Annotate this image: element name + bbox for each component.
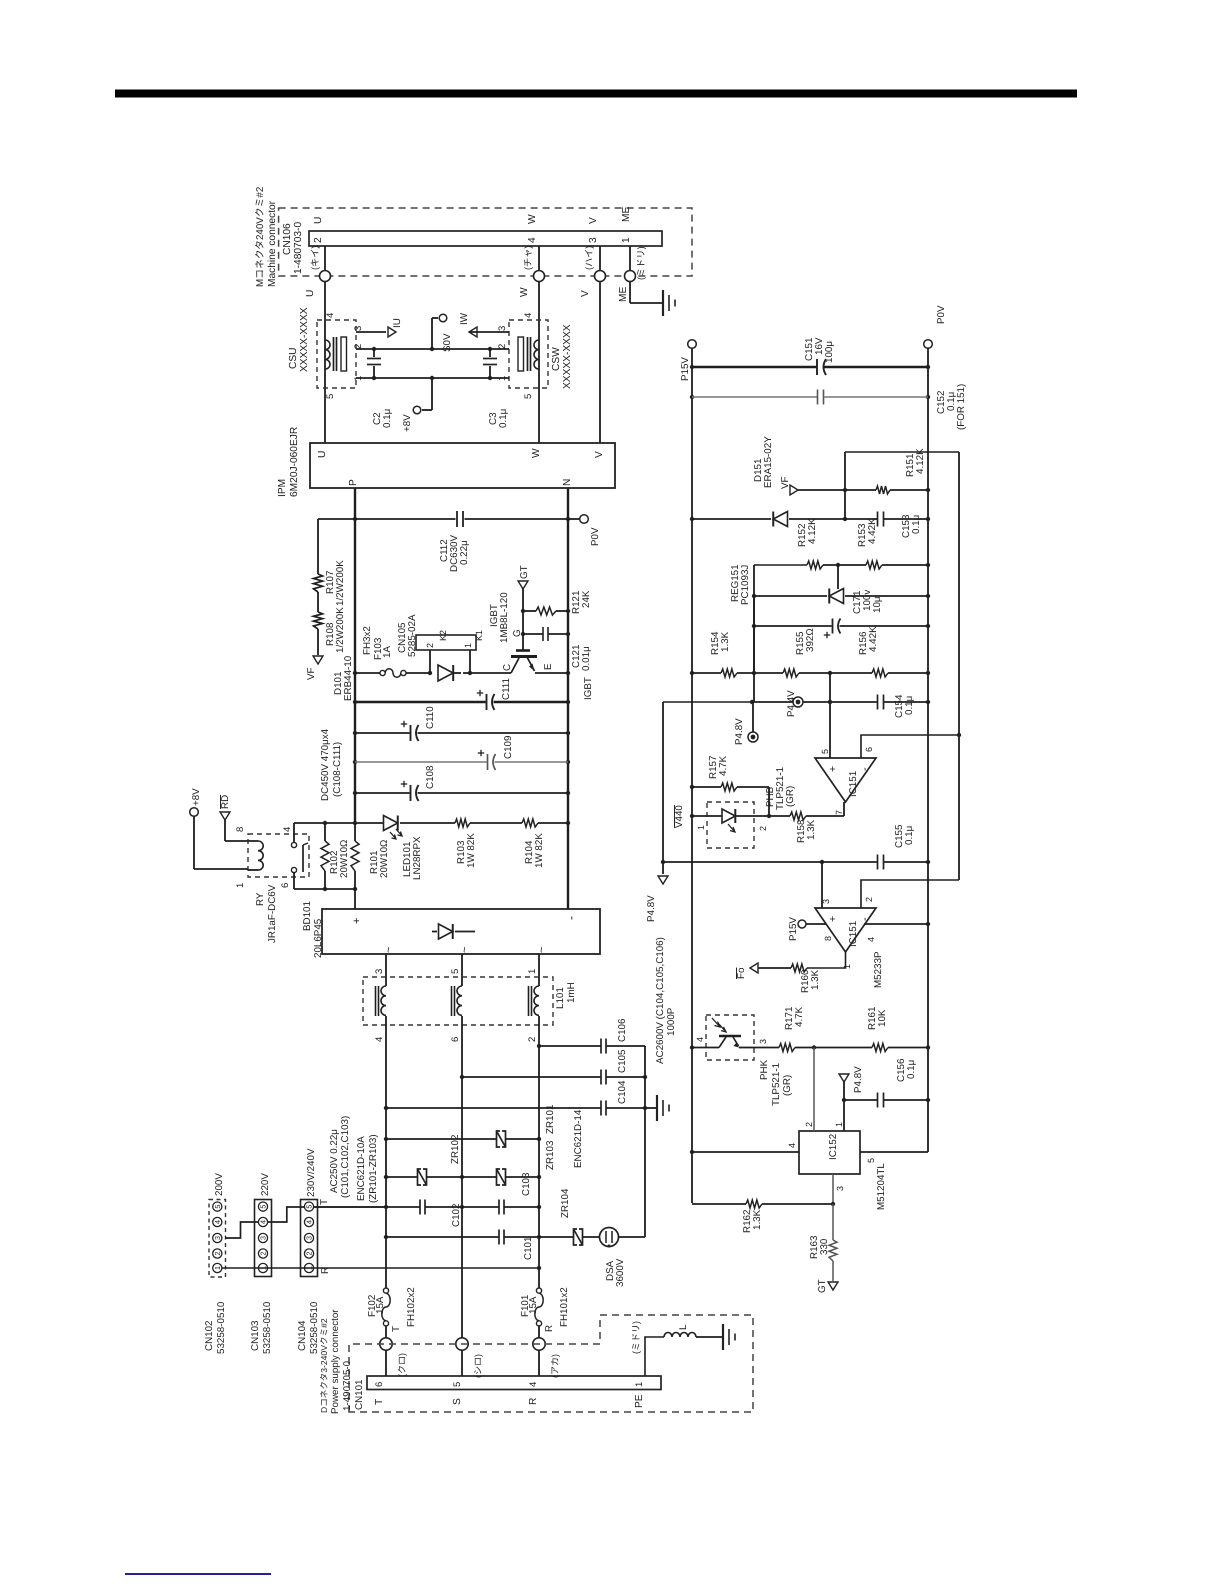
wire IC152 pin3 — [832, 1174, 834, 1204]
ground (ME) — [662, 290, 664, 316]
capacitor C154 — [877, 695, 879, 710]
svg-text:(ミドリ): (ミドリ) — [631, 1321, 641, 1354]
svg-text:FH102x2: FH102x2 — [406, 1287, 417, 1327]
net RD — [220, 812, 230, 820]
svg-text:CN103: CN103 — [250, 1320, 261, 1351]
fuse F102 — [383, 1288, 388, 1293]
wire IC152 pin1 — [843, 1100, 845, 1131]
svg-text:Mコネクタ240Vクミ#2: Mコネクタ240Vクミ#2 — [255, 187, 266, 287]
optocoupler PHK dashed box — [706, 1015, 754, 1060]
svg-text:LN28RPX: LN28RPX — [412, 836, 423, 880]
current sensor CSU dashed box — [317, 320, 356, 388]
node ME circle — [625, 271, 636, 282]
wire pin5 — [829, 673, 831, 758]
wire V phase upper — [599, 246, 601, 271]
svg-text:S0V: S0V — [442, 333, 453, 352]
resistor R153 — [866, 561, 882, 569]
svg-text:N: N — [562, 479, 573, 486]
svg-text:~: ~ — [536, 947, 548, 953]
svg-text:(GR): (GR) — [785, 786, 796, 807]
PHK phototransistor — [692, 1047, 719, 1049]
diode LED101 — [384, 816, 398, 831]
wire pin4 — [864, 923, 928, 925]
varistor ZR102 — [386, 1176, 418, 1178]
svg-text:C103: C103 — [521, 1172, 532, 1196]
resistor R154 — [721, 669, 737, 677]
wire C156 row — [844, 1099, 878, 1101]
net arrow IU — [388, 327, 396, 337]
svg-text:4: 4 — [259, 1220, 268, 1224]
relay coil — [225, 840, 258, 842]
svg-text:20W10Ω: 20W10Ω — [379, 840, 390, 878]
wire R162 row — [692, 1203, 746, 1205]
CSW coil — [534, 340, 539, 369]
svg-text:2: 2 — [425, 643, 435, 648]
wire C111 row — [355, 701, 486, 703]
wire C110 row — [355, 732, 410, 734]
svg-text:4.12K: 4.12K — [915, 448, 926, 474]
svg-text:15A: 15A — [375, 1296, 386, 1314]
svg-text:P15V: P15V — [788, 917, 799, 941]
svg-text:3: 3 — [374, 969, 385, 974]
svg-text:DC450V 470μx4: DC450V 470μx4 — [320, 728, 331, 801]
wire T phase to L101 — [385, 954, 387, 986]
svg-text:4: 4 — [282, 827, 293, 832]
svg-text:4: 4 — [528, 1382, 539, 1387]
terminal CN102 dashed box — [209, 1200, 226, 1278]
svg-text:R: R — [320, 1267, 331, 1274]
svg-text:4: 4 — [374, 1037, 385, 1042]
relay contact — [293, 823, 295, 842]
node V circle — [595, 271, 606, 282]
wire select jumper2 — [268, 1207, 304, 1222]
svg-text:ENC621D-10A: ENC621D-10A — [356, 1136, 367, 1201]
svg-text:5: 5 — [305, 1205, 314, 1209]
svg-text:TLP521-1: TLP521-1 — [771, 1063, 782, 1106]
wire P4.8V drop — [753, 596, 755, 702]
capacitor C155 — [877, 855, 879, 870]
svg-text:6M20J-060EJR: 6M20J-060EJR — [289, 427, 300, 497]
net arrow GT top — [518, 581, 528, 589]
svg-text:4: 4 — [527, 237, 538, 243]
svg-text:3: 3 — [213, 1236, 222, 1240]
resistor R108 — [314, 612, 323, 629]
wire T row — [314, 1206, 387, 1208]
svg-text:-: - — [859, 767, 871, 771]
svg-text:7: 7 — [834, 810, 844, 815]
current sensor CSW dashed box — [509, 320, 548, 388]
svg-text:C104: C104 — [617, 1080, 628, 1104]
node U circle — [320, 271, 331, 282]
svg-text:CN102: CN102 — [204, 1321, 215, 1352]
ground (AC filter) — [645, 1107, 656, 1109]
svg-text:20L6P45: 20L6P45 — [313, 918, 324, 958]
svg-text:CN104: CN104 — [297, 1320, 308, 1351]
svg-text:5: 5 — [866, 1158, 876, 1163]
IC152 box — [799, 1131, 860, 1174]
svg-text:1MB8L-120: 1MB8L-120 — [499, 592, 510, 643]
capacitor C110 — [410, 725, 412, 741]
svg-text:(ハイ): (ハイ) — [584, 246, 594, 270]
wire pin2 row — [356, 348, 509, 350]
svg-text:2: 2 — [758, 826, 768, 831]
wire T S R to CN101 — [385, 1351, 387, 1377]
svg-text:E: E — [543, 663, 554, 670]
svg-text:V440: V440 — [674, 805, 685, 828]
wire IC152 pin4 — [692, 1151, 799, 1153]
wire pin1 out — [807, 952, 846, 968]
wire V440 branch — [662, 702, 664, 862]
net IW arrow — [469, 327, 477, 337]
svg-text:C101: C101 — [523, 1237, 534, 1260]
svg-text:ERA15-02Y: ERA15-02Y — [763, 436, 774, 488]
wire R157 row — [692, 786, 721, 788]
svg-text:53258-0510: 53258-0510 — [216, 1301, 227, 1354]
svg-text:8: 8 — [823, 936, 833, 941]
svg-text:4.7K: 4.7K — [718, 755, 729, 776]
wire T phase mid — [385, 1016, 387, 1288]
svg-text:P4.4V: P4.4V — [786, 690, 797, 717]
wire CSU pin3 to IU — [356, 331, 386, 333]
capacitor C156 — [877, 1093, 879, 1108]
svg-text:R: R — [544, 1325, 555, 1332]
svg-text:5: 5 — [820, 749, 830, 754]
net P4.4V testpoint — [793, 697, 803, 707]
svg-text:3: 3 — [835, 1186, 845, 1191]
terminal CN103 box — [255, 1200, 272, 1277]
svg-text:0.22μ: 0.22μ — [459, 540, 470, 565]
wire W phase upper — [538, 246, 540, 271]
capacitor C151 row — [692, 366, 817, 369]
wire R171 row — [754, 1047, 779, 1049]
svg-text:5: 5 — [325, 394, 336, 399]
varistor ZR101 row — [386, 1138, 497, 1140]
svg-text:6: 6 — [864, 747, 874, 752]
svg-text:1: 1 — [834, 1122, 844, 1127]
svg-text:U: U — [317, 451, 328, 458]
svg-text:5285-02A: 5285-02A — [407, 614, 418, 657]
net +8V tap — [431, 378, 433, 410]
connector CN106 dashed outline — [279, 208, 692, 276]
resistor R162 — [746, 1200, 762, 1208]
svg-text:5: 5 — [259, 1205, 268, 1209]
svg-text:+: + — [351, 918, 363, 924]
CSW core — [527, 337, 529, 371]
svg-text:PE: PE — [634, 1394, 645, 1408]
svg-text:1000P: 1000P — [666, 1007, 677, 1036]
svg-text:230V/240V: 230V/240V — [306, 1148, 317, 1197]
arrester DSA — [600, 1228, 619, 1247]
svg-text:392Ω: 392Ω — [805, 628, 816, 652]
svg-text:IPM: IPM — [277, 479, 288, 497]
svg-text:10μ: 10μ — [872, 596, 883, 613]
wire pin6 — [861, 735, 959, 758]
wire P0V bus — [927, 348, 929, 1152]
svg-text:C102: C102 — [451, 1204, 462, 1227]
capacitor C112 — [456, 511, 458, 527]
node circle kuro — [380, 1338, 392, 1350]
capacitor C105 row — [462, 1076, 601, 1078]
svg-text:1/2W200K: 1/2W200K — [335, 607, 346, 653]
svg-text:L101: L101 — [555, 987, 566, 1009]
svg-text:M5233P: M5233P — [873, 951, 884, 988]
svg-text:AC250V 0.22μ: AC250V 0.22μ — [329, 1129, 340, 1193]
svg-text:T: T — [319, 1199, 330, 1205]
svg-text:C105: C105 — [617, 1049, 628, 1073]
svg-text:4.12K: 4.12K — [807, 518, 818, 544]
svg-text:200V: 200V — [214, 1173, 225, 1196]
svg-text:L: L — [678, 1324, 689, 1330]
svg-text:0.1μ: 0.1μ — [498, 409, 509, 428]
svg-text:1.3K: 1.3K — [806, 819, 817, 840]
svg-text:CN106: CN106 — [282, 223, 293, 255]
svg-text:(GR): (GR) — [782, 1075, 793, 1096]
L101 winding S — [457, 986, 462, 1015]
svg-text:GT: GT — [817, 1279, 828, 1293]
bridge rectifier BD101 box — [322, 909, 600, 954]
svg-text:2: 2 — [527, 1037, 538, 1042]
svg-text:ENC621D-14: ENC621D-14 — [573, 1109, 584, 1168]
svg-text:3: 3 — [259, 1236, 268, 1240]
resistor R152 — [807, 561, 823, 569]
wire V440 row — [663, 861, 822, 863]
svg-text:330: 330 — [819, 1238, 830, 1255]
svg-text:3: 3 — [821, 899, 831, 904]
svg-text:V: V — [588, 217, 599, 224]
svg-text:1-480703-0: 1-480703-0 — [293, 222, 304, 274]
svg-text:-: - — [564, 916, 578, 920]
wire N bus — [567, 488, 569, 909]
svg-text:100μ: 100μ — [824, 341, 835, 363]
wire IC152 pin2 — [813, 1048, 815, 1132]
svg-text:C: C — [502, 664, 513, 671]
capacitor C2 — [373, 349, 375, 357]
svg-text:+: + — [827, 916, 839, 922]
svg-text:1: 1 — [696, 825, 706, 830]
svg-text:K2: K2 — [438, 630, 448, 641]
wire D151 row — [692, 518, 771, 520]
svg-text:6: 6 — [450, 1037, 461, 1042]
svg-text:6: 6 — [280, 883, 291, 888]
varistor ZR103 — [462, 1176, 497, 1178]
terminal CN102 pins — [213, 1202, 222, 1211]
svg-text:CSW: CSW — [551, 347, 562, 371]
svg-text:BD101: BD101 — [302, 901, 313, 931]
connector CN101 body — [367, 1376, 661, 1390]
resistor R107 — [314, 574, 323, 592]
resistor R156 — [872, 669, 888, 677]
svg-text:4: 4 — [523, 313, 534, 318]
svg-text:1W 82K: 1W 82K — [534, 833, 545, 868]
relay RY dashed box — [248, 834, 309, 877]
svg-text:PHK: PHK — [759, 1059, 770, 1080]
svg-text:ZR101: ZR101 — [545, 1105, 556, 1134]
svg-text:AC2600V (C104,C105,C106): AC2600V (C104,C105,C106) — [655, 937, 666, 1064]
resistor R102 — [324, 823, 326, 841]
svg-text:3: 3 — [758, 1039, 768, 1044]
diode D151 — [773, 512, 787, 527]
svg-text:4: 4 — [305, 1220, 314, 1224]
svg-text:(C101,C102,C103): (C101,C102,C103) — [340, 1116, 351, 1198]
terminal CN104 pins — [304, 1202, 313, 1211]
L101 winding R — [534, 986, 539, 1015]
net S0V — [431, 318, 433, 349]
resistor R155 — [783, 669, 799, 677]
wire P0V row — [318, 518, 456, 520]
ground (PE) — [722, 1324, 724, 1350]
svg-text:U: U — [305, 290, 316, 297]
svg-text:ME: ME — [621, 207, 632, 222]
svg-text:RD: RD — [220, 795, 231, 809]
svg-text:2: 2 — [804, 1122, 814, 1127]
svg-text:V: V — [580, 290, 591, 297]
svg-text:T: T — [391, 1326, 402, 1332]
capacitor C106 row — [539, 1045, 601, 1047]
capacitor C152 row — [692, 396, 817, 398]
inductor L earth — [664, 1333, 696, 1338]
svg-text:4: 4 — [213, 1220, 222, 1224]
wire bleeder — [317, 519, 319, 574]
svg-text:W: W — [519, 287, 530, 297]
capacitor C109 — [487, 754, 489, 770]
wire R152 R153 row — [754, 564, 807, 566]
title bar top — [115, 90, 1077, 98]
wire feedback top — [845, 451, 959, 453]
terminal CN103 pins — [258, 1202, 267, 1211]
resistor R163 — [832, 1204, 834, 1240]
svg-text:4.7K: 4.7K — [794, 1006, 805, 1027]
svg-text:1: 1 — [842, 964, 852, 969]
wire pin2 link — [861, 880, 959, 908]
svg-text:1.3K: 1.3K — [752, 1209, 763, 1230]
wire REG ref — [837, 565, 839, 589]
connector CN101 dashed outline — [349, 1315, 753, 1412]
svg-text:U: U — [313, 217, 324, 224]
resistor R157 — [721, 783, 737, 791]
svg-text:(キイ): (キイ) — [310, 246, 320, 271]
svg-text:C111: C111 — [501, 678, 512, 700]
capacitor C171 — [832, 619, 834, 634]
svg-text:VF: VF — [306, 667, 317, 680]
filter L101 dashed box — [363, 977, 553, 1025]
capacitor C3 — [489, 349, 491, 357]
svg-text:5: 5 — [452, 1382, 463, 1387]
svg-text:ERB44-10: ERB44-10 — [343, 655, 354, 701]
svg-text:~: ~ — [383, 947, 395, 953]
connector CN105 — [416, 635, 476, 650]
svg-text:(FOR 151): (FOR 151) — [956, 384, 967, 430]
diode D101 — [438, 665, 453, 681]
shunt regulator REG151 — [829, 589, 843, 604]
node W circle — [534, 271, 545, 282]
svg-text:(C108-C111): (C108-C111) — [332, 742, 343, 797]
svg-text:PC1093J: PC1093J — [740, 565, 751, 605]
capacitor C108 — [410, 785, 412, 801]
wire P to bridge — [354, 889, 356, 909]
svg-text:P4.8V: P4.8V — [646, 895, 657, 922]
fuse F101 — [536, 1288, 541, 1293]
node circle shiro — [456, 1338, 468, 1350]
svg-text:1/2W200K: 1/2W200K — [335, 560, 346, 606]
svg-text:2: 2 — [213, 1252, 222, 1256]
svg-text:2: 2 — [305, 1252, 314, 1256]
svg-text:ZR102: ZR102 — [450, 1135, 461, 1164]
node P0V circle — [580, 515, 589, 524]
terminal CN104 box — [301, 1200, 318, 1277]
svg-text:4: 4 — [325, 313, 336, 318]
svg-text:FH101x2: FH101x2 — [559, 1287, 570, 1327]
svg-text:1-490705-0: 1-490705-0 — [342, 1360, 353, 1411]
svg-text:1: 1 — [235, 883, 246, 888]
svg-text:-: - — [859, 917, 871, 921]
net P4.8V testpoint — [748, 732, 758, 742]
svg-text:4: 4 — [866, 937, 876, 942]
svg-text:CN101: CN101 — [354, 1380, 365, 1411]
svg-text:4: 4 — [695, 1037, 705, 1042]
wire R phase to L101 — [538, 954, 540, 986]
wire LED row — [294, 822, 384, 824]
resistor R101 — [354, 823, 356, 841]
svg-text:P15V: P15V — [680, 357, 691, 381]
resistor R160 — [791, 964, 807, 972]
svg-text:RY: RY — [255, 892, 266, 906]
wire P15V rail — [691, 348, 693, 1203]
net P15V circle — [688, 340, 697, 349]
svg-text:0.01μ: 0.01μ — [581, 646, 592, 671]
svg-text:C106: C106 — [617, 1018, 628, 1042]
svg-text:4.42K: 4.42K — [867, 518, 878, 544]
wire ME phase upper — [629, 246, 631, 271]
node circle aka — [533, 1338, 545, 1350]
svg-text:15A: 15A — [528, 1296, 539, 1314]
svg-text:+: + — [827, 766, 839, 772]
op-amp IC151b — [815, 908, 876, 952]
svg-text:Dコネクタ3-240Vクミ#2: Dコネクタ3-240Vクミ#2 — [319, 1318, 329, 1413]
net arrow P4.8V left — [658, 876, 668, 884]
svg-text:5: 5 — [450, 969, 461, 974]
transistor IGBT brake — [511, 658, 519, 673]
svg-text:M51204TL: M51204TL — [876, 1163, 887, 1210]
svg-text:0.1μ: 0.1μ — [904, 826, 915, 845]
resistor R104 — [522, 819, 538, 827]
wire relay bottom row — [294, 888, 355, 890]
svg-text:ZR104: ZR104 — [560, 1188, 571, 1218]
wire PE — [645, 1337, 664, 1376]
svg-text:ME: ME — [618, 287, 629, 302]
svg-text:G: G — [512, 629, 523, 637]
svg-text:IW: IW — [459, 312, 470, 325]
svg-text:W: W — [531, 448, 542, 458]
svg-text:53258-0510: 53258-0510 — [262, 1301, 273, 1354]
svg-text:K1: K1 — [474, 630, 484, 641]
resistor R171 — [779, 1044, 795, 1052]
wire REG branch — [753, 565, 755, 673]
wire REG row — [754, 595, 827, 597]
capacitor C104 row — [386, 1107, 601, 1109]
wire R154 row — [692, 672, 721, 674]
svg-text:0.1μ: 0.1μ — [906, 1060, 917, 1079]
net arrow VF — [313, 656, 323, 664]
wire IC152 pin5 — [860, 1151, 928, 1153]
svg-text:C109: C109 — [503, 736, 514, 759]
svg-text:(アカ): (アカ) — [550, 1354, 560, 1378]
wire P bus — [354, 488, 356, 823]
svg-text:P: P — [348, 479, 359, 486]
svg-text:GT: GT — [519, 565, 530, 579]
wire select jumper1 — [225, 1222, 258, 1238]
wire D101 row — [355, 672, 380, 674]
capacitor C121 — [523, 633, 543, 635]
